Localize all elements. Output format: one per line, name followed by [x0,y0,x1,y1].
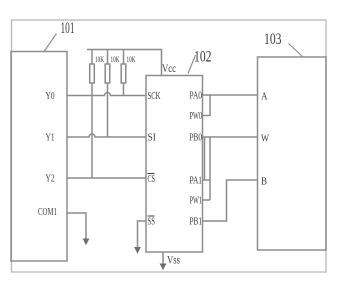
wire PW0 tie to PA0 net [203,95,211,116]
svg-text:10K: 10K [111,55,120,64]
wire COM1 to ground [67,213,86,239]
svg-text:PB0: PB0 [190,133,203,144]
resistor R3 (10K pull-up, SCK) [121,50,126,96]
resistor R1 (10K pull-up, CS) [90,50,95,179]
pin A [261,92,268,103]
svg-text:Y1: Y1 [46,133,55,144]
pin SCK [148,91,162,102]
resistor R2 (10K pull-up, SI) [105,50,110,138]
Vss pin lead with arrow [160,252,167,270]
wire PA0 to A [203,94,258,96]
pin PW0 [190,111,203,122]
svg-text:CS: CS [148,174,156,185]
svg-text:10K: 10K [127,55,136,64]
wire PB1 to B [203,180,258,221]
svg-text:COM1: COM1 [38,207,57,218]
block 103 (potentiometer terminals) [258,57,327,250]
svg-text:Y0: Y0 [46,91,55,102]
pin B [261,177,267,188]
svg-text:SI: SI [148,133,157,144]
block 102 (digital potentiometer IC) [146,76,203,253]
pin SI [148,133,157,144]
svg-text:PW0: PW0 [190,111,203,122]
Vcc rail [87,50,162,76]
pin PA1 [190,176,203,187]
label 102 with leader line [188,49,212,74]
wire PB0 to W [203,136,258,138]
svg-text:103: 103 [264,31,282,48]
value 10K (R2) [111,55,120,64]
Vss label [167,253,180,267]
svg-text:Y2: Y2 [46,174,55,185]
pin COM1 [38,207,57,218]
svg-text:PB1: PB1 [190,217,203,228]
svg-text:PA0: PA0 [190,91,203,102]
svg-text:Vcc: Vcc [162,61,176,75]
ground arrow (SS) [134,247,141,254]
svg-text:B: B [261,177,267,188]
wire Y2 to CS [67,177,146,179]
pin W [261,134,269,145]
ground arrow (COM1) [83,239,90,246]
value 10K (R1) [95,55,104,64]
pin PW1 [190,196,203,207]
pin CS (active low) [148,174,156,186]
pin PA0 [190,91,203,102]
svg-text:Vss: Vss [167,253,180,267]
pin PB1 [190,217,203,228]
svg-text:SS: SS [148,217,156,228]
block 101 (selector switch) [11,52,67,262]
wire PW1 tie to W net [203,137,211,200]
wire Y0 to SCK (hop over R2 lead) [67,93,146,96]
label 101 with leader line [44,20,75,52]
wire SS to ground [138,221,147,248]
svg-text:SCK: SCK [148,91,162,102]
svg-text:10K: 10K [95,55,104,64]
wire Y1 to SI (hop over R1 lead) [67,134,146,137]
pin Y1 [46,133,55,144]
svg-text:W: W [261,134,269,145]
pin Y2 [46,174,55,185]
svg-text:102: 102 [194,49,212,66]
wire PA1 tie to W net [203,137,211,180]
svg-text:A: A [261,92,268,103]
svg-text:101: 101 [61,20,75,37]
svg-text:PA1: PA1 [190,176,203,187]
Vcc label [162,61,176,75]
pin SS (active low) [148,216,156,228]
svg-text:PW1: PW1 [190,196,203,207]
label 103 with leader line [264,31,303,57]
pin PB0 [190,133,203,144]
value 10K (R3) [127,55,136,64]
pin Y0 [46,91,55,102]
